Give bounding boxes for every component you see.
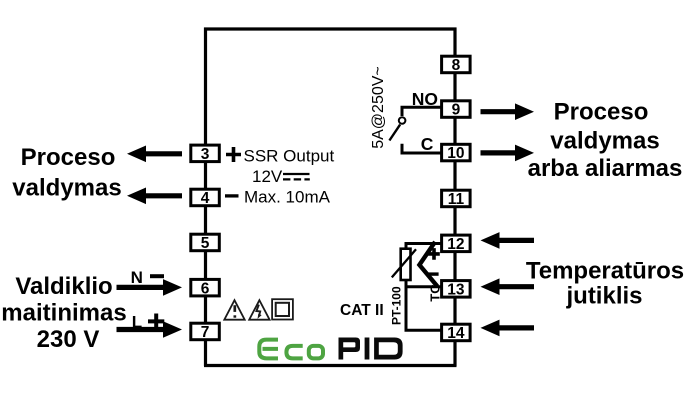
svg-text:N: N xyxy=(131,268,143,287)
warning triangle exclamation xyxy=(224,300,244,320)
svg-text:8: 8 xyxy=(452,57,461,74)
logo PID (black) xyxy=(339,338,403,360)
svg-text:5A@250V~: 5A@250V~ xyxy=(370,66,387,149)
terminal 13 xyxy=(442,281,471,299)
svg-text:valdymas: valdymas xyxy=(12,174,121,201)
svg-text:C: C xyxy=(421,134,434,154)
terminal 5 xyxy=(191,234,220,252)
arrow in terminal 7 xyxy=(117,321,183,338)
svg-text:SSR Output: SSR Output xyxy=(244,146,335,165)
svg-text:valdymas: valdymas xyxy=(550,128,659,155)
warning triangle lightning xyxy=(249,300,269,320)
RTD PT-100 resistor body xyxy=(401,249,411,280)
terminal 10 xyxy=(442,144,471,162)
wire top bus xyxy=(204,27,457,30)
svg-text:Proceso: Proceso xyxy=(554,99,649,126)
terminal 14 xyxy=(442,324,471,342)
svg-text:9: 9 xyxy=(452,102,461,119)
svg-text:14: 14 xyxy=(447,325,465,342)
thermocouple TC element xyxy=(419,242,437,287)
svg-text:6: 6 xyxy=(201,280,210,297)
plus at L xyxy=(148,314,164,330)
svg-text:L: L xyxy=(132,312,142,331)
relay contact arm xyxy=(389,125,400,141)
wire left bus xyxy=(204,28,207,367)
terminal 12 xyxy=(442,235,471,253)
svg-text:13: 13 xyxy=(447,281,465,298)
terminal 4 xyxy=(191,189,220,207)
sensor wire to terminal 14 xyxy=(405,329,443,332)
svg-text:Max. 10mA: Max. 10mA xyxy=(244,188,331,207)
arrow in terminal 13 xyxy=(481,278,535,295)
relay C wire xyxy=(402,144,443,153)
svg-text:NO: NO xyxy=(412,89,438,109)
relay NO wire xyxy=(402,107,443,116)
sensor plus sign xyxy=(428,248,440,260)
arrow out terminal 10 xyxy=(481,145,535,162)
svg-text:Temperatūros: Temperatūros xyxy=(526,257,684,284)
svg-text:230 V: 230 V xyxy=(37,326,100,353)
arrow in terminal 6 xyxy=(117,279,183,296)
terminal 8 xyxy=(442,56,471,74)
arrow in terminal 12 xyxy=(481,232,535,249)
plus at terminal 3 xyxy=(226,147,241,162)
minus at terminal 4 xyxy=(225,194,239,197)
svg-text:Proceso: Proceso xyxy=(21,144,116,171)
svg-text:CAT II: CAT II xyxy=(340,302,384,319)
DC symbol xyxy=(283,173,310,175)
sensor minus sign xyxy=(428,272,439,275)
svg-text:4: 4 xyxy=(201,190,210,207)
terminal 7 xyxy=(191,323,220,341)
svg-text:jutiklis: jutiklis xyxy=(565,283,642,310)
wire bottom bus xyxy=(204,364,457,367)
terminal 11 xyxy=(442,190,471,208)
svg-text:Valdiklio: Valdiklio xyxy=(15,273,112,300)
arrow out terminal 4 xyxy=(127,188,182,205)
double insulation square xyxy=(272,299,293,319)
logo Eco (green) xyxy=(259,340,323,359)
wire right bus xyxy=(453,28,456,367)
arrow out terminal 9 xyxy=(481,103,535,120)
terminal 3 xyxy=(191,145,220,163)
svg-text:12: 12 xyxy=(447,236,464,253)
svg-text:maitinimas: maitinimas xyxy=(1,299,126,326)
minus at N xyxy=(150,274,164,278)
sensor left vertical wire xyxy=(405,245,408,330)
svg-text:12V: 12V xyxy=(252,167,283,186)
svg-text:5: 5 xyxy=(201,235,210,252)
svg-text:11: 11 xyxy=(448,191,465,208)
svg-text:arba aliarmas: arba aliarmas xyxy=(528,155,683,182)
svg-text:PT-100: PT-100 xyxy=(390,286,404,325)
svg-text:7: 7 xyxy=(201,324,210,341)
sensor wire to terminal 12 xyxy=(405,242,443,245)
terminal 6 xyxy=(191,279,220,297)
relay contact pivot xyxy=(399,117,406,124)
svg-text:3: 3 xyxy=(201,146,210,163)
arrow in terminal 14 xyxy=(481,320,535,337)
RTD diagonal stroke xyxy=(392,249,416,277)
arrow out terminal 3 xyxy=(127,146,182,163)
sensor wire to terminal 13 xyxy=(405,285,443,288)
terminal 9 xyxy=(442,101,471,119)
svg-text:10: 10 xyxy=(447,145,464,162)
